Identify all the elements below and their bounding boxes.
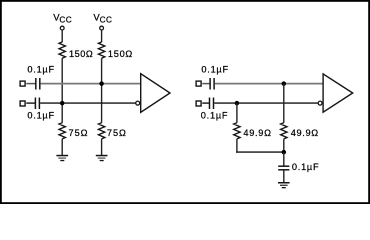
svg-text:0.1µF: 0.1µF (292, 162, 319, 172)
svg-text:75Ω: 75Ω (69, 128, 88, 138)
junction dot bottom rail (282, 150, 287, 155)
wire J2 to C2 (26, 102, 35, 104)
resistor R3 75 ohm (59, 123, 65, 139)
wire C5 to ground (283, 170, 285, 182)
svg-text:0.1µF: 0.1µF (27, 65, 54, 75)
ground G3 (278, 182, 290, 188)
wire VCC2 to R2 (101, 31, 103, 43)
VCC terminal circle 1 (60, 26, 64, 30)
wire R2 down through wires (101, 58, 103, 123)
wire VCC1 to R1 (61, 31, 63, 43)
wire R3 to ground (61, 139, 63, 155)
input terminal square J2 (20, 101, 25, 106)
input terminal square J1 (20, 81, 25, 86)
input terminal square J3 (196, 81, 201, 86)
ground G2 (96, 155, 108, 161)
resistor R5 49.9 ohm (234, 123, 240, 139)
wire J3 to C3 (202, 83, 210, 85)
capacitor C5 (278, 166, 289, 170)
wire R6 to bottom rail (283, 139, 285, 152)
junction dot top wire at line2 (99, 81, 104, 86)
wire dot to R5 (236, 103, 238, 123)
capacitor C1 (36, 78, 40, 90)
svg-text:0.1µF: 0.1µF (201, 65, 228, 75)
svg-text:0.1µF: 0.1µF (201, 111, 228, 121)
wire top input to op-amp U2 (215, 83, 323, 85)
VCC terminal circle 2 (100, 26, 104, 30)
wire bottom input to bubble U2 (214, 102, 318, 104)
svg-text:0.1µF: 0.1µF (27, 111, 54, 121)
svg-text:150Ω: 150Ω (69, 49, 93, 59)
capacitor C3 (210, 78, 214, 90)
capacitor C2 (35, 98, 39, 110)
wire rail to C5 (283, 152, 285, 166)
wire bottom input to bubble (40, 102, 135, 104)
wire R1 down through top wire to dot (61, 58, 63, 123)
wire J4 to C4 (202, 102, 209, 104)
resistor R2 150 ohm (98, 42, 104, 58)
svg-text:150Ω: 150Ω (108, 49, 133, 59)
wire top dot to R6 crossing bottom wire (283, 84, 285, 123)
resistor R6 49.9 ohm (281, 123, 287, 139)
wire R4 to ground (101, 139, 103, 155)
resistor R1 150 ohm (59, 42, 65, 58)
svg-text:49.9Ω: 49.9Ω (291, 128, 319, 138)
wire bottom rail joining R5 R6 (236, 151, 284, 153)
capacitor C4 (210, 98, 214, 110)
wire R5 to bottom rail (236, 139, 238, 153)
svg-text:CC: CC (59, 15, 71, 24)
node VCC label 2 (93, 13, 112, 25)
junction dot bottom wire at line1 (60, 101, 64, 106)
wire J1 to C1 (26, 83, 35, 85)
inverting input bubble U1 (136, 101, 140, 105)
inverting input bubble U2 (318, 101, 322, 105)
svg-text:49.9Ω: 49.9Ω (243, 128, 271, 138)
junction dot top wire at R6 (282, 81, 287, 86)
svg-text:CC: CC (100, 15, 112, 24)
junction dot bottom wire at R5 (235, 101, 240, 106)
input terminal square J4 (196, 101, 201, 106)
op-amp U2 triangle (323, 74, 353, 112)
wire top input to op-amp (41, 83, 141, 85)
node VCC label 1 (53, 13, 72, 25)
ground G1 (56, 155, 68, 161)
resistor R4 75 ohm (98, 123, 104, 139)
svg-text:75Ω: 75Ω (107, 128, 126, 138)
op-amp U1 triangle (141, 74, 170, 113)
